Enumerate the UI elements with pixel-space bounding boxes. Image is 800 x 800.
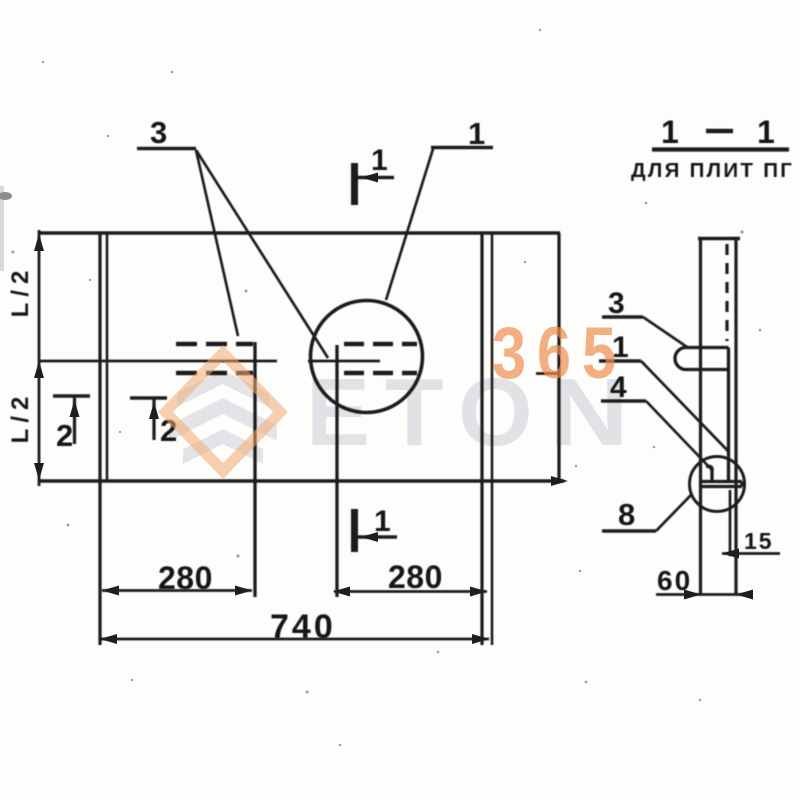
svg-text:280: 280	[158, 560, 213, 596]
svg-text:1: 1	[661, 114, 679, 150]
svg-text:L/2: L/2	[7, 391, 34, 444]
svg-text:365: 365	[492, 313, 627, 394]
svg-text:1: 1	[468, 116, 485, 151]
svg-text:60: 60	[657, 565, 692, 596]
svg-text:1: 1	[757, 114, 775, 150]
svg-text:3: 3	[150, 115, 167, 150]
svg-text:280: 280	[388, 559, 443, 595]
svg-text:15: 15	[744, 528, 774, 554]
svg-text:8: 8	[618, 497, 635, 532]
svg-text:ДЛЯ ПЛИТ ПГ: ДЛЯ ПЛИТ ПГ	[631, 159, 794, 182]
svg-text:1: 1	[374, 505, 391, 538]
svg-text:L/2: L/2	[7, 265, 34, 318]
svg-text:2: 2	[56, 418, 73, 453]
svg-text:740: 740	[270, 608, 336, 646]
svg-text:1: 1	[371, 144, 388, 177]
